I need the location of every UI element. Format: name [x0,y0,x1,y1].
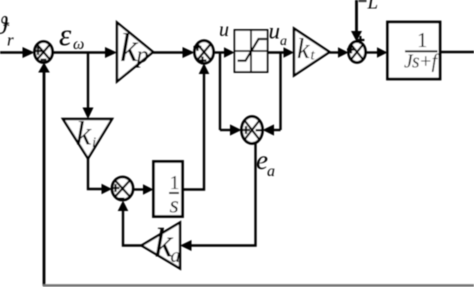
block 1/(Js+f) [388,22,441,79]
summer S5 [242,117,263,144]
sign plus on S3 left input [347,46,355,54]
svg-text:ε: ε [59,17,72,52]
arrowhead into S5 left [230,124,242,135]
svg-text:k: k [297,34,310,65]
sign plus on S2 left input [194,43,202,51]
arrowhead into S1 bottom [38,63,50,73]
wire plant output to right edge [440,51,474,53]
svg-text:s: s [170,193,179,219]
gain ka (pointing left) [142,220,181,269]
svg-text:a: a [280,34,287,49]
sign plus on S2 bottom input [199,57,207,65]
sign minus on S5 right input [256,129,262,131]
wire S1 to kp [53,51,109,53]
svg-text:a: a [171,245,181,267]
sign plus on S3 top input [356,36,364,44]
wire S2 to saturation block [214,51,227,53]
node label e_a [256,145,275,180]
svg-text:u: u [219,19,229,41]
wire u branch down to S5 left [220,129,232,131]
wire u_a branch down to S5 right [272,129,281,131]
wire kt to S3 [330,51,341,53]
wire speed feedback vertical to S1 bottom [43,71,46,286]
wire input reference [0,51,25,53]
wire branch node C down from u_a line [279,53,281,131]
summer S1 [35,42,53,63]
block integrator 1/s [154,162,183,219]
arrowhead into S3 left [338,47,349,58]
node label -L (clipped at top edge) [359,0,379,14]
sign plus on S4 left input [112,184,120,192]
svg-text:L: L [367,0,379,14]
wire S5 output down and left to ka [190,143,256,246]
arrowhead into S4 bottom [118,201,129,212]
saturation block [235,30,268,72]
wire S3 to plant block [366,51,380,53]
svg-text:u: u [269,19,281,44]
svg-text:1: 1 [170,172,180,194]
svg-text:r: r [7,31,14,50]
svg-text:k: k [76,116,92,153]
arrowhead into kt [284,47,295,58]
summer S2 [195,41,214,64]
node label omega*r (clipped at left edge) [0,13,14,50]
wire kp to S2 [153,51,184,53]
arrowhead into S2 left [183,47,195,58]
gain ki (pointing down) [63,116,112,159]
sign minus on S4 bottom input [118,198,124,200]
sign plus on S1 left input [34,47,42,55]
gain kt [294,29,330,76]
wire S4 to integrator [133,188,145,190]
arrowhead into ka right [180,240,192,251]
svg-text:1: 1 [417,28,428,52]
wire branch node A down to ki [87,53,89,111]
summer S3 [349,42,366,63]
summer S4 [112,177,133,200]
svg-text:ω: ω [73,36,84,53]
arrowhead into S3 top [351,31,362,42]
arrowhead into summer S1 left [23,47,35,58]
arrowhead into ki top [83,108,94,120]
wire saturation block to kt [268,51,286,53]
svg-text:Js+f: Js+f [404,52,440,73]
wire ka output left and up to S4 bottom [123,210,142,246]
wire speed feedback along bottom edge (clipped) [43,284,474,287]
arrowhead into integrator [143,184,154,195]
svg-text:i: i [92,135,96,151]
arrowhead into kp [105,47,117,58]
arrowhead into plant block [377,47,388,58]
arrowhead into S4 left [102,184,113,195]
arrowhead into S5 right [263,124,275,135]
arrowhead into saturation block [224,47,235,58]
sign plus on S5 left input [242,126,250,134]
wire load input -L from top [355,0,358,33]
sign minus on S1 bottom input [41,59,47,61]
gain kp [117,23,153,82]
arrowhead into S2 bottom [199,63,210,74]
svg-text:a: a [267,163,275,180]
wire branch node B down from u line [219,53,221,131]
wire ki output down and right to S4 [88,159,103,190]
wire integrator output right and up to S2 bottom [183,73,205,190]
node label u_a [269,19,288,50]
svg-text:p: p [135,43,149,69]
node label epsilon_omega [59,17,84,53]
